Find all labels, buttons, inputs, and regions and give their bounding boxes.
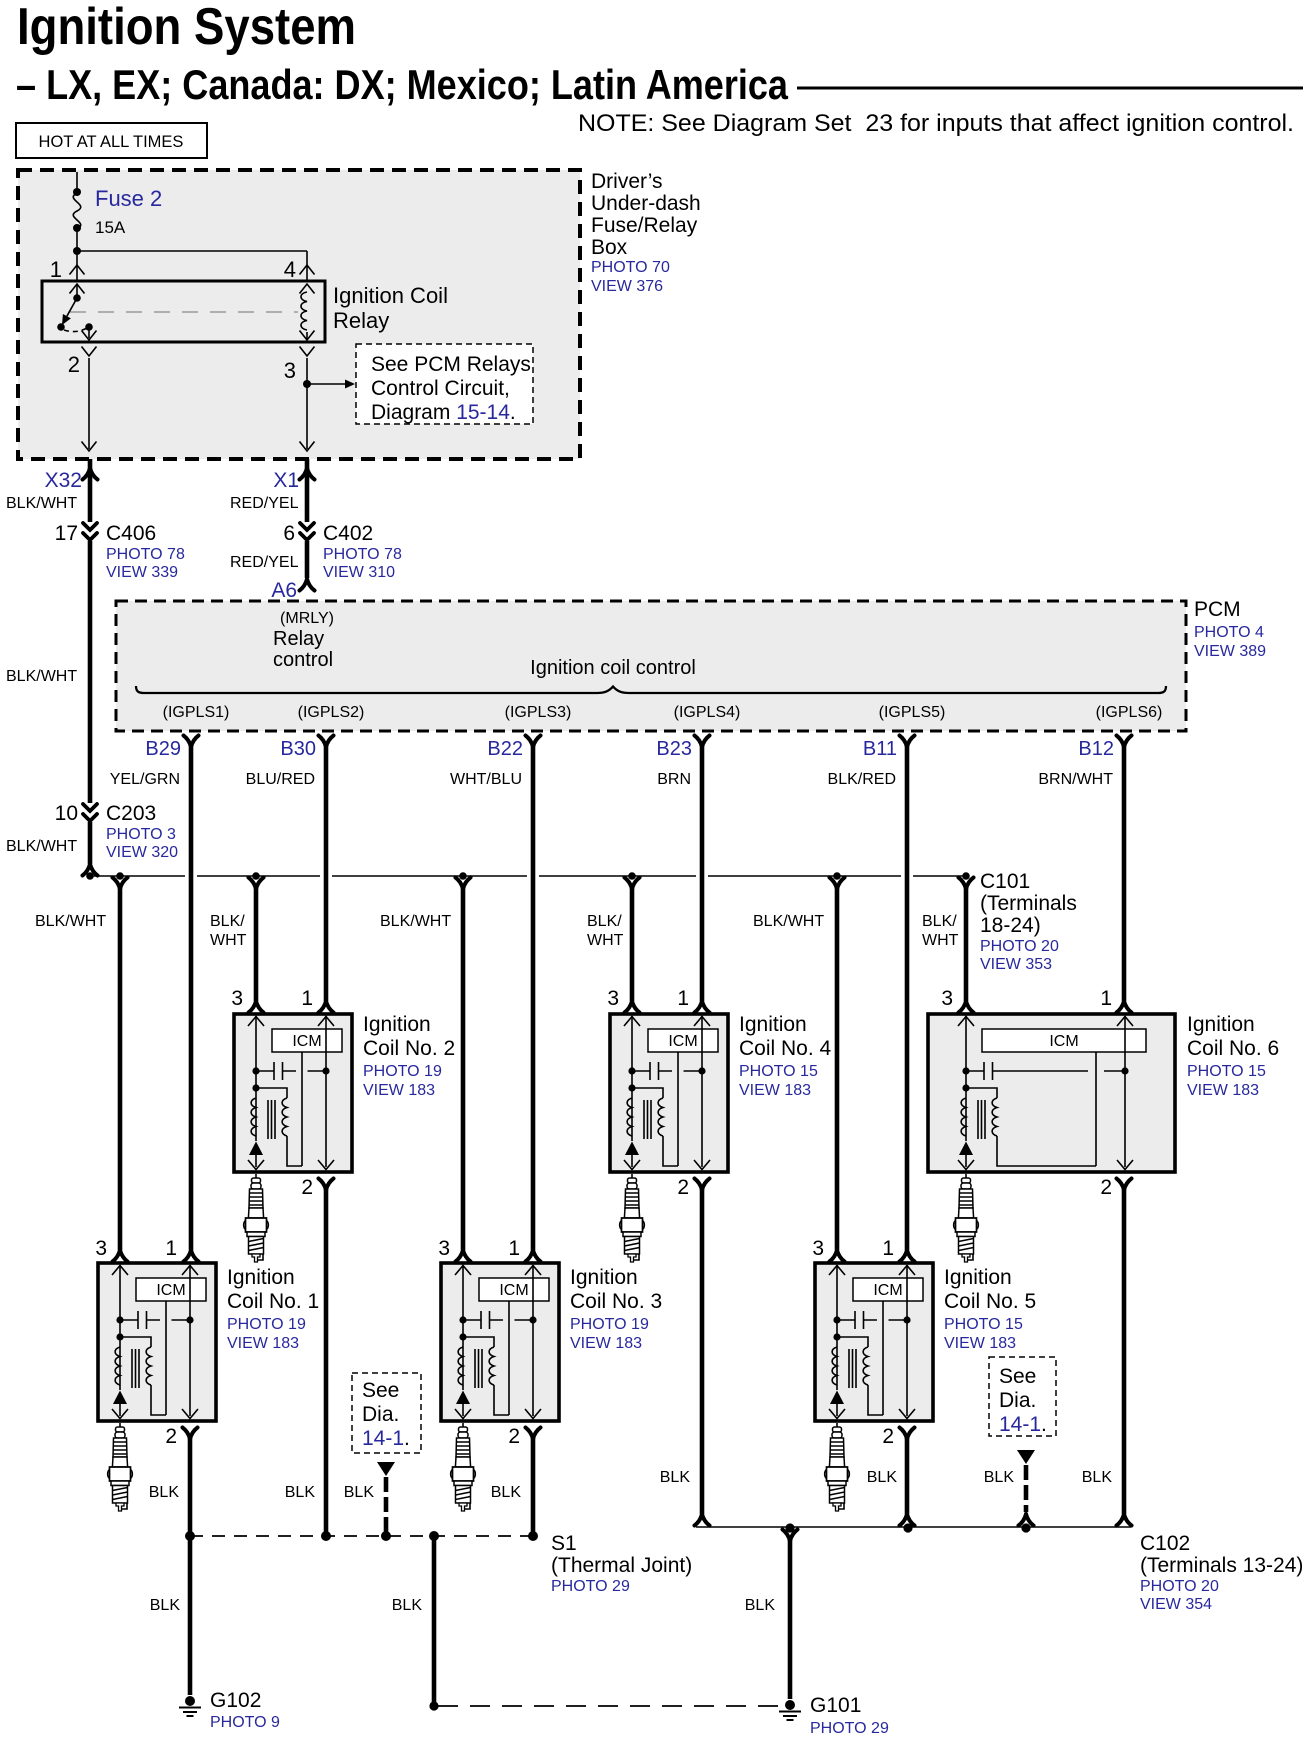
svg-text:PHOTO 78: PHOTO 78 — [106, 546, 185, 563]
svg-text:WHT: WHT — [587, 932, 624, 949]
svg-text:G101: G101 — [810, 1694, 861, 1717]
svg-text:15A: 15A — [95, 218, 126, 237]
coil 6 pin 3 terminal — [959, 1001, 974, 1013]
svg-text:PHOTO 20: PHOTO 20 — [980, 938, 1059, 955]
spark plug of coil 1 — [108, 1423, 133, 1511]
svg-text:YEL/GRN: YEL/GRN — [110, 771, 180, 788]
wire C402 to PCM pin A6 — [305, 541, 310, 578]
svg-text:BLK/RED: BLK/RED — [828, 771, 896, 788]
arrow to PCM relays note — [307, 383, 345, 385]
svg-text:PHOTO 19: PHOTO 19 — [227, 1316, 306, 1333]
PCM pin B11 — [900, 736, 915, 748]
svg-text:3: 3 — [231, 987, 243, 1010]
svg-text:B30: B30 — [280, 738, 316, 760]
svg-text:PHOTO 15: PHOTO 15 — [1187, 1063, 1266, 1080]
svg-text:PHOTO 20: PHOTO 20 — [1140, 1578, 1219, 1595]
svg-text:14-1.: 14-1. — [999, 1413, 1047, 1436]
junction coil 5 wire at C102 — [903, 1523, 912, 1532]
svg-text:(Terminals 13-24): (Terminals 13-24) — [1140, 1554, 1303, 1577]
svg-text:X1: X1 — [273, 469, 299, 492]
branch node — [73, 247, 81, 255]
svg-text:BLK: BLK — [344, 1484, 375, 1501]
svg-text:BLK: BLK — [660, 1469, 691, 1486]
wire to diagram 14-1 (right) — [1017, 1450, 1035, 1464]
svg-text:Coil No. 5: Coil No. 5 — [944, 1290, 1036, 1313]
svg-text:PHOTO 29: PHOTO 29 — [551, 1578, 630, 1595]
svg-text:2: 2 — [508, 1425, 520, 1448]
svg-text:2: 2 — [1100, 1176, 1112, 1199]
svg-text:BLK/: BLK/ — [210, 913, 245, 930]
svg-text:6: 6 — [283, 522, 295, 545]
ignition coil relay box — [42, 281, 325, 342]
PCM pin B29 — [184, 736, 199, 748]
svg-text:3: 3 — [95, 1237, 107, 1260]
svg-text:(IGPLS2): (IGPLS2) — [298, 704, 365, 721]
svg-text:WHT/BLU: WHT/BLU — [450, 771, 522, 788]
svg-text:WHT: WHT — [210, 932, 247, 949]
subtitle rule — [797, 87, 1303, 90]
svg-text:Driver’s: Driver’s — [591, 170, 663, 193]
svg-text:VIEW 183: VIEW 183 — [739, 1082, 811, 1099]
spark plug of coil 4 — [620, 1174, 645, 1262]
node tap 1 — [116, 872, 124, 880]
spark plug of coil 3 — [451, 1423, 476, 1511]
svg-text:G102: G102 — [210, 1689, 261, 1712]
svg-text:BLK: BLK — [491, 1484, 522, 1501]
svg-text:BLK: BLK — [149, 1484, 180, 1501]
svg-text:2: 2 — [165, 1425, 177, 1448]
svg-text:1: 1 — [301, 987, 313, 1010]
coil 2 pin 3 terminal — [249, 1001, 264, 1013]
svg-text:Coil No. 1: Coil No. 1 — [227, 1290, 319, 1313]
svg-text:2: 2 — [882, 1425, 894, 1448]
svg-text:BLK: BLK — [867, 1469, 898, 1486]
PCM pin B30 — [319, 736, 334, 748]
connector X1 — [305, 459, 310, 522]
junction coil 2 wire at S1 — [321, 1531, 331, 1541]
coil 3 pin 1 terminal — [526, 1250, 541, 1262]
svg-text:See PCM Relays: See PCM Relays — [371, 353, 531, 376]
svg-text:1: 1 — [50, 257, 62, 282]
coil 4 pin 3 terminal — [625, 1001, 640, 1013]
svg-text:BLK: BLK — [150, 1597, 181, 1614]
svg-text:1: 1 — [165, 1237, 177, 1260]
svg-text:See: See — [362, 1379, 399, 1402]
svg-text:(Terminals: (Terminals — [980, 892, 1077, 915]
svg-text:Coil No. 4: Coil No. 4 — [739, 1037, 832, 1060]
junction coil 3 wire at S1 — [528, 1531, 538, 1541]
ignition coil No. 4 (with ICM) — [610, 1014, 728, 1172]
wire S1 to G101 joint — [432, 1536, 437, 1703]
wire tap to coil 3 pin 3 — [461, 888, 466, 1250]
spark plug of coil 2 — [244, 1174, 269, 1262]
svg-text:NOTE: See Diagram Set 23 for: NOTE: See Diagram Set 23 for inputs that… — [578, 110, 1294, 137]
svg-text:C102: C102 — [1140, 1532, 1190, 1555]
wire coil 6 pin 2 to C102 — [1122, 1189, 1127, 1514]
coil 5 pin 3 terminal — [830, 1250, 845, 1262]
svg-text:Relay: Relay — [273, 628, 324, 650]
wire C203 to ground bus — [88, 822, 93, 864]
relay pin 2 lead inside box — [88, 327, 90, 338]
svg-text:PHOTO 70: PHOTO 70 — [591, 259, 670, 276]
wire fuse to branch — [76, 228, 78, 251]
svg-text:BLK/WHT: BLK/WHT — [6, 838, 77, 855]
svg-text:VIEW 183: VIEW 183 — [1187, 1082, 1259, 1099]
svg-text:RED/YEL: RED/YEL — [230, 554, 299, 571]
PCM pin B12 — [1117, 736, 1132, 748]
node tap 2 — [252, 872, 260, 880]
svg-text:B11: B11 — [863, 738, 897, 760]
svg-text:Ignition coil control: Ignition coil control — [530, 657, 696, 679]
svg-text:RED/YEL: RED/YEL — [230, 495, 299, 512]
node tap 3 — [459, 872, 467, 880]
svg-text:PHOTO 3: PHOTO 3 — [106, 826, 176, 843]
svg-text:Ignition: Ignition — [944, 1266, 1012, 1289]
brace — [136, 686, 1166, 693]
connector C102 bus — [696, 1526, 1131, 1528]
relay switch common from pin 1 — [70, 284, 85, 294]
junction ground branch at S1 — [429, 1531, 439, 1541]
wire B29 to coil 1 pin 1 — [189, 746, 194, 1250]
coil 3 pin 3 terminal — [456, 1250, 471, 1262]
wire tap to coil 5 pin 3 — [835, 888, 840, 1250]
svg-text:B12: B12 — [1078, 738, 1114, 760]
PCM pin B22 — [526, 736, 541, 748]
svg-text:BLK: BLK — [745, 1597, 776, 1614]
svg-text:Ignition System: Ignition System — [17, 0, 356, 56]
svg-text:A6: A6 — [271, 579, 297, 602]
svg-text:VIEW 183: VIEW 183 — [227, 1335, 299, 1352]
wire to diagram 14-1 (left) — [377, 1462, 395, 1476]
svg-text:PCM: PCM — [1194, 598, 1241, 621]
PCM pin A6 — [300, 579, 315, 591]
svg-text:VIEW 376: VIEW 376 — [591, 278, 663, 295]
splice S1 thermal joint bus — [190, 1535, 533, 1537]
svg-text:C402: C402 — [323, 522, 373, 545]
svg-text:Coil No. 3: Coil No. 3 — [570, 1290, 662, 1313]
svg-text:Relay: Relay — [333, 308, 389, 333]
svg-text:VIEW 353: VIEW 353 — [980, 956, 1052, 973]
svg-text:2: 2 — [68, 352, 80, 377]
wire tap to coil 2 pin 3 — [254, 888, 259, 1001]
wire C102 to G101 — [783, 1530, 798, 1542]
wire B23 to coil 4 pin 1 — [700, 746, 705, 1001]
svg-text:1: 1 — [508, 1237, 520, 1260]
PCM pin B23 — [695, 736, 710, 748]
svg-text:Box: Box — [591, 236, 628, 259]
svg-text:C101: C101 — [980, 870, 1030, 893]
relay coil winding — [300, 284, 315, 294]
wire coil 5 pin 2 to C102 — [905, 1438, 910, 1514]
svg-text:BLK/: BLK/ — [922, 913, 957, 930]
svg-text:BRN/WHT: BRN/WHT — [1038, 771, 1113, 788]
wire pin 3 to connector X1 — [306, 358, 308, 449]
svg-text:PHOTO 15: PHOTO 15 — [739, 1063, 818, 1080]
wire coil 1 pin 2 to S1 and G102 — [188, 1438, 193, 1695]
wire pin 2 to connector X32 — [88, 358, 90, 449]
coil 1 pin 3 terminal — [113, 1250, 128, 1262]
svg-text:PHOTO 19: PHOTO 19 — [570, 1316, 649, 1333]
node tap 4 — [628, 872, 636, 880]
svg-text:Diagram 15-14.: Diagram 15-14. — [371, 401, 516, 424]
svg-text:VIEW 310: VIEW 310 — [323, 564, 395, 581]
svg-text:1: 1 — [1100, 987, 1112, 1010]
svg-text:BRN: BRN — [657, 771, 691, 788]
svg-text:Dia.: Dia. — [999, 1389, 1036, 1412]
node below fuse — [73, 224, 81, 232]
svg-text:3: 3 — [438, 1237, 450, 1260]
svg-text:Dia.: Dia. — [362, 1403, 399, 1426]
svg-text:(MRLY): (MRLY) — [280, 610, 334, 627]
svg-text:S1: S1 — [551, 1532, 577, 1555]
see diagram 14-1 note box (left) — [352, 1373, 421, 1453]
svg-text:B29: B29 — [145, 738, 181, 760]
ignition coil No. 5 (with ICM) — [815, 1263, 933, 1421]
ignition coil No. 1 (with ICM) — [98, 1263, 216, 1421]
svg-text:VIEW 389: VIEW 389 — [1194, 643, 1266, 660]
svg-text:Ignition: Ignition — [739, 1013, 807, 1036]
ground G101 — [779, 1700, 801, 1720]
relay switch blade — [67, 298, 77, 316]
svg-text:BLU/RED: BLU/RED — [246, 771, 315, 788]
wire B12 to coil 6 pin 1 — [1122, 746, 1127, 1001]
svg-text:3: 3 — [812, 1237, 824, 1260]
svg-text:10: 10 — [55, 802, 78, 825]
wire tap to coil 4 pin 3 — [630, 888, 635, 1001]
junction G101 branch at C102 — [785, 1523, 794, 1532]
svg-text:BLK/: BLK/ — [587, 913, 622, 930]
svg-text:BLK: BLK — [392, 1597, 423, 1614]
svg-text:(IGPLS4): (IGPLS4) — [674, 704, 741, 721]
driver's under-dash fuse/relay box (dashed) — [18, 170, 580, 459]
svg-text:4: 4 — [284, 257, 296, 282]
wire coil 2 pin 2 to S1 — [324, 1189, 329, 1536]
svg-text:C203: C203 — [106, 802, 156, 825]
svg-text:control: control — [273, 649, 333, 671]
svg-text:– LX, EX; Canada: DX; Mexico;: – LX, EX; Canada: DX; Mexico; Latin Amer… — [16, 61, 789, 108]
svg-text:See: See — [999, 1365, 1036, 1388]
ignition coil No. 2 (with ICM) — [234, 1014, 352, 1172]
ignition coil No. 6 (with ICM) — [928, 1014, 1175, 1172]
connector C101 tap — [962, 872, 970, 880]
svg-text:(IGPLS3): (IGPLS3) — [505, 704, 572, 721]
svg-text:Ignition: Ignition — [363, 1013, 431, 1036]
relay actuator dashed link — [70, 311, 298, 313]
svg-text:(IGPLS5): (IGPLS5) — [879, 704, 946, 721]
svg-text:BLK: BLK — [1082, 1469, 1113, 1486]
svg-text:BLK/WHT: BLK/WHT — [6, 668, 77, 685]
svg-text:B22: B22 — [487, 738, 523, 760]
wire coil 4 pin 2 to C102 — [700, 1189, 705, 1514]
svg-text:VIEW 183: VIEW 183 — [570, 1335, 642, 1352]
svg-text:Control Circuit,: Control Circuit, — [371, 377, 510, 400]
svg-text:C406: C406 — [106, 522, 156, 545]
svg-text:PHOTO 4: PHOTO 4 — [1194, 624, 1264, 641]
coil 1 pin 1 terminal — [184, 1250, 199, 1262]
svg-text:Under-dash: Under-dash — [591, 192, 701, 215]
wire tap to coil 6 pin 3 — [964, 888, 969, 1001]
svg-text:PHOTO 15: PHOTO 15 — [944, 1316, 1023, 1333]
svg-text:BLK: BLK — [984, 1469, 1015, 1486]
svg-text:VIEW 339: VIEW 339 — [106, 564, 178, 581]
fuse F2 element — [73, 193, 81, 229]
ignition coil No. 3 (with ICM) — [441, 1263, 559, 1421]
svg-text:18-24): 18-24) — [980, 914, 1041, 937]
svg-text:BLK/WHT: BLK/WHT — [380, 913, 451, 930]
bus wire to G101 (dashed) — [438, 1705, 781, 1707]
connector X32 — [88, 459, 93, 522]
see PCM relays note box — [356, 344, 533, 424]
svg-text:Fuse 2: Fuse 2 — [95, 186, 162, 211]
svg-text:PHOTO 78: PHOTO 78 — [323, 546, 402, 563]
svg-text:WHT: WHT — [922, 932, 959, 949]
junction coil 1 wire at S1 — [185, 1531, 195, 1541]
svg-text:Coil No. 2: Coil No. 2 — [363, 1037, 455, 1060]
svg-text:14-1.: 14-1. — [362, 1427, 410, 1450]
svg-text:3: 3 — [941, 987, 953, 1010]
coil 5 pin 1 terminal — [900, 1250, 915, 1262]
wire branch to relay pins 1 and 4 — [77, 251, 307, 281]
hot at all times box — [16, 123, 207, 158]
svg-text:VIEW 320: VIEW 320 — [106, 844, 178, 861]
svg-text:Ignition: Ignition — [570, 1266, 638, 1289]
wire B30 to coil 2 pin 1 — [324, 746, 329, 1001]
svg-text:Fuse/Relay: Fuse/Relay — [591, 214, 698, 237]
svg-text:BLK/WHT: BLK/WHT — [753, 913, 824, 930]
wire X32 to splice bus — [88, 541, 93, 803]
svg-text:(IGPLS1): (IGPLS1) — [163, 704, 230, 721]
svg-text:2: 2 — [677, 1176, 689, 1199]
svg-text:PHOTO 29: PHOTO 29 — [810, 1720, 889, 1737]
wire B11 to coil 5 pin 1 — [905, 746, 910, 1250]
svg-text:VIEW 354: VIEW 354 — [1140, 1596, 1212, 1613]
svg-text:3: 3 — [607, 987, 619, 1010]
svg-text:BLK/WHT: BLK/WHT — [35, 913, 106, 930]
PCM box (dashed) — [116, 601, 1186, 731]
svg-text:PHOTO 19: PHOTO 19 — [363, 1063, 442, 1080]
svg-text:Ignition: Ignition — [1187, 1013, 1255, 1036]
wire tap to coil 1 pin 3 — [118, 888, 123, 1250]
svg-text:BLK: BLK — [285, 1484, 316, 1501]
relay switch throw (dashed) to pin 2 — [64, 328, 87, 332]
svg-text:HOT AT ALL TIMES: HOT AT ALL TIMES — [39, 133, 184, 151]
svg-text:(IGPLS6): (IGPLS6) — [1096, 704, 1163, 721]
junction node — [73, 188, 81, 196]
svg-text:VIEW 183: VIEW 183 — [363, 1082, 435, 1099]
ground distribution bus wire — [90, 875, 966, 877]
spark plug of coil 6 — [954, 1174, 979, 1262]
svg-text:1: 1 — [882, 1237, 894, 1260]
spark plug of coil 5 — [825, 1423, 850, 1511]
svg-text:Ignition: Ignition — [227, 1266, 295, 1289]
wire coil 3 pin 2 to S1 — [531, 1438, 536, 1536]
svg-text:Ignition Coil: Ignition Coil — [333, 283, 448, 308]
svg-text:2: 2 — [301, 1176, 313, 1199]
svg-text:PHOTO 9: PHOTO 9 — [210, 1714, 280, 1731]
svg-text:VIEW 183: VIEW 183 — [944, 1335, 1016, 1352]
ground G102 — [179, 1696, 201, 1716]
wire B22 to coil 3 pin 1 — [531, 746, 536, 1250]
svg-text:BLK/WHT: BLK/WHT — [6, 495, 77, 512]
svg-text:(Thermal Joint): (Thermal Joint) — [551, 1554, 692, 1577]
svg-text:17: 17 — [55, 522, 78, 545]
coil 6 pin 1 terminal — [1117, 1001, 1132, 1013]
svg-text:X32: X32 — [45, 469, 82, 492]
coil 2 pin 1 terminal — [319, 1001, 334, 1013]
svg-text:Coil No. 6: Coil No. 6 — [1187, 1037, 1279, 1060]
node on pin 3 wire — [303, 380, 311, 388]
wire from box top to fuse — [76, 172, 78, 192]
coil 4 pin 1 terminal — [695, 1001, 710, 1013]
svg-text:3: 3 — [284, 358, 296, 383]
svg-text:1: 1 — [677, 987, 689, 1010]
junction diagram 14-1 wire at C102 — [1021, 1523, 1030, 1532]
svg-text:B23: B23 — [656, 738, 692, 760]
node tap 5 — [833, 872, 841, 880]
see diagram 14-1 note box (right) — [989, 1357, 1056, 1436]
